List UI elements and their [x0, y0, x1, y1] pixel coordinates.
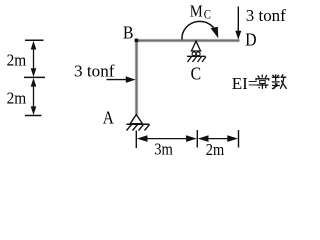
dimension bottom tick at C — [196, 130, 198, 148]
node B corner dot — [135, 39, 139, 43]
svg-text:2m: 2m — [7, 88, 27, 107]
dimension 3m arrowheads — [137, 135, 148, 142]
force 3 tonf at mid-column arrow shaft — [107, 79, 128, 81]
dimension 3m line — [143, 138, 191, 140]
dimension left bottom tick — [25, 115, 42, 117]
dimension left top tick — [25, 39, 44, 41]
EI constant glyph chang — [256, 75, 269, 90]
svg-text:2m: 2m — [7, 51, 27, 70]
dimension bottom tick at A — [135, 131, 137, 149]
svg-text:M: M — [190, 1, 203, 20]
svg-text:3 tonf: 3 tonf — [74, 61, 115, 80]
pin support A hatching — [127, 125, 150, 131]
svg-text:D: D — [245, 29, 256, 49]
force 3 tonf at mid-column arrowhead — [126, 76, 136, 83]
svg-text:3m: 3m — [154, 140, 173, 159]
dimension 2m line — [203, 138, 233, 140]
pin support A triangle — [130, 115, 142, 124]
svg-text:B: B — [123, 22, 134, 42]
svg-text:A: A — [103, 107, 114, 127]
svg-text:C: C — [191, 64, 202, 84]
roller support C triangle — [191, 41, 200, 51]
beam BD — [136, 39, 240, 42]
EI constant glyph shu — [272, 74, 287, 89]
pin support A ground line — [127, 123, 150, 125]
dimension bottom tick at D — [238, 130, 240, 148]
dimension left upper 2m line — [33, 46, 35, 72]
roller support C hatching — [188, 57, 207, 62]
force 3 tonf at D arrowhead — [235, 31, 241, 40]
dimension left lower 2m arrowheads — [31, 78, 37, 87]
force 3 tonf at D arrow shaft — [237, 7, 239, 33]
dimension left lower 2m line — [33, 83, 35, 110]
moment M_C arrowhead — [211, 27, 219, 38]
dimension left middle tick — [24, 76, 45, 78]
column AB — [135, 41, 138, 115]
roller support C rollers — [192, 52, 196, 56]
dimension 2m arrowheads — [198, 135, 209, 142]
svg-text:3 tonf: 3 tonf — [246, 6, 286, 25]
svg-text:EI=: EI= — [232, 74, 258, 93]
dimension left upper 2m arrowheads — [31, 41, 37, 50]
svg-text:C: C — [204, 7, 211, 22]
roller support C ground line — [187, 55, 206, 57]
svg-text:2m: 2m — [206, 140, 224, 159]
moment M_C arc — [182, 21, 217, 39]
